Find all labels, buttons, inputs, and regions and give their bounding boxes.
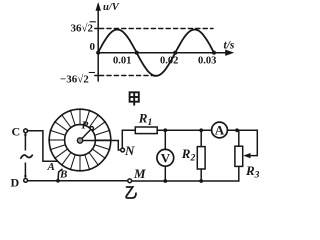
rheostat wiper wire from top rail (237, 130, 257, 155)
junction node above voltmeter (163, 128, 167, 132)
voltmeter V1 (157, 149, 174, 166)
svg-text:R1: R1 (138, 111, 152, 129)
dashed level line -36root2 with axis tick (95, 75, 158, 77)
junction node above R3 (235, 128, 239, 132)
wire R2 to bottom rail (200, 169, 202, 181)
svg-text:−36√2: −36√2 (60, 74, 89, 86)
wire D along bottom rail to M (28, 180, 128, 182)
resistor R1 (135, 127, 157, 134)
wire junction to rheostat R3 top (238, 130, 240, 146)
svg-text:R2: R2 (181, 146, 196, 164)
wire top rail to voltmeter (164, 130, 166, 149)
rheostat R3 body (235, 146, 243, 166)
terminal M (128, 179, 132, 183)
wire voltmeter to bottom rail (164, 166, 166, 181)
wire C-D left branch with AC source gap (24, 133, 26, 178)
svg-text:36√2: 36√2 (71, 23, 94, 35)
wire N up to resistor R1 (122, 130, 135, 148)
u axis (vertical) (96, 3, 101, 81)
svg-text:A: A (47, 161, 55, 173)
terminal C (24, 129, 28, 136)
label 36root2 (71, 22, 96, 35)
resistor R2 (197, 147, 205, 169)
svg-text:0.03: 0.03 (198, 56, 216, 67)
terminal N (121, 148, 125, 152)
junction node R2 bottom (199, 179, 203, 183)
slider P arm (77, 127, 93, 144)
wire slider P to terminal N (83, 141, 121, 151)
svg-text:R3: R3 (245, 163, 260, 181)
svg-text:P: P (82, 120, 89, 132)
node dots at t=0, 0.01, 0.02, 0.03 (96, 51, 216, 55)
junction node voltmeter bottom (163, 179, 167, 183)
svg-text:V: V (161, 151, 171, 166)
svg-text:C: C (12, 125, 21, 139)
terminal D (24, 175, 28, 183)
winding bead dots on outer ring (48, 108, 112, 172)
label -36root2 (60, 73, 95, 86)
wire top rail to R2 (200, 130, 202, 146)
rheostat wiper arrowhead (243, 153, 250, 158)
caption yi (drawn glyph) (126, 187, 136, 198)
svg-text:t/s: t/s (224, 40, 235, 52)
junction node above R2 (199, 128, 203, 132)
ammeter A1 (212, 122, 228, 138)
caption jia (drawn glyph) (130, 92, 139, 105)
transformer T1 toroidal core (49, 109, 111, 171)
svg-text:B: B (59, 169, 67, 181)
AC source tilde (21, 155, 33, 158)
svg-text:u/V: u/V (103, 2, 120, 13)
top rail wire R1 to R3 corner (157, 129, 257, 131)
wire C to node A (28, 131, 58, 162)
svg-text:0: 0 (90, 41, 96, 53)
svg-text:A: A (215, 123, 225, 138)
node B junction dot and lead to winding (56, 169, 62, 183)
svg-text:N: N (124, 143, 135, 158)
wire R3 to bottom rail corner (132, 166, 239, 181)
svg-text:M: M (133, 166, 146, 181)
dashed level line +36root2 with axis tick (95, 28, 213, 30)
transformer winding spokes (49, 109, 111, 171)
svg-text:0.02: 0.02 (160, 56, 178, 67)
t axis (horizontal) (98, 50, 233, 56)
sine curve u(t) (98, 30, 214, 76)
svg-text:0.01: 0.01 (113, 56, 131, 67)
svg-text:D: D (11, 175, 20, 189)
